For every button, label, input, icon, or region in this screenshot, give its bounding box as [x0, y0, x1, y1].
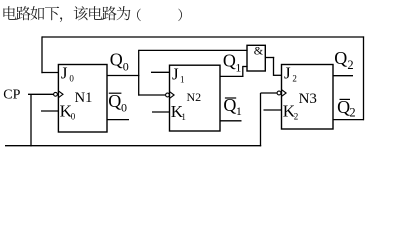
- wire Q1-bar stub: [220, 120, 242, 122]
- wire CP drop to bottom rail: [30, 94, 32, 146]
- wire K0 input stub: [41, 110, 58, 112]
- svg-text:1: 1: [235, 61, 241, 75]
- svg-text:2: 2: [294, 111, 299, 121]
- svg-text:2: 2: [347, 58, 353, 72]
- svg-text:N1: N1: [75, 90, 93, 106]
- flip-flop N3 box: [282, 65, 334, 130]
- svg-text:1: 1: [180, 74, 185, 84]
- label N3: [299, 91, 317, 107]
- svg-text:N3: N3: [299, 91, 317, 107]
- bubble N2 clock: [166, 93, 170, 97]
- svg-text:N2: N2: [187, 90, 202, 104]
- svg-text:Q: Q: [108, 91, 121, 111]
- wire Q0-bar stub: [107, 119, 129, 121]
- wire N3 clock input: [261, 92, 278, 94]
- wire CP input: [28, 93, 54, 95]
- label J2 of N3: [284, 64, 297, 84]
- wire bottom rail riser to N3 clock: [260, 93, 262, 146]
- flip-flop N2 box: [170, 65, 221, 131]
- label Q0: [110, 50, 129, 74]
- svg-text:Q: Q: [223, 51, 236, 71]
- wire bottom CP rail: [5, 145, 261, 147]
- clock wedge N2: [170, 92, 175, 99]
- wire AND output drop: [273, 57, 275, 76]
- bubble N1 clock: [54, 92, 58, 96]
- wire J0 input: [41, 72, 58, 74]
- svg-text:2: 2: [292, 74, 297, 84]
- title text: [3, 6, 182, 22]
- label Q1-bar: [223, 95, 242, 118]
- svg-text:J: J: [172, 64, 179, 83]
- svg-text:J: J: [61, 64, 68, 83]
- wire Q1 to AND gate: [243, 66, 248, 68]
- label N2: [187, 90, 202, 104]
- svg-text:0: 0: [123, 60, 129, 74]
- label J1 of N2: [172, 64, 185, 84]
- wire AND output: [265, 57, 274, 59]
- label N1: [75, 90, 93, 106]
- svg-text:&: &: [254, 44, 264, 58]
- label CP: [3, 88, 20, 103]
- wire top feedback rail: [42, 36, 364, 38]
- wire left feedback drop: [41, 36, 43, 73]
- label K0 of N1: [60, 101, 76, 121]
- wire Q0 output: [107, 75, 139, 77]
- wire Q0 riser: [138, 50, 140, 96]
- wire Q1 riser: [242, 66, 244, 77]
- label Q1: [223, 51, 242, 75]
- svg-text:Q: Q: [334, 48, 347, 68]
- wire J2 input: [274, 74, 282, 76]
- wire Q0 to N2 clock: [139, 94, 166, 96]
- label Q2: [334, 48, 353, 72]
- svg-text:0: 0: [69, 74, 74, 84]
- wire Q0 to AND gate: [139, 49, 248, 51]
- svg-text:0: 0: [71, 111, 76, 121]
- wire K2 input stub: [264, 109, 282, 111]
- svg-text:1: 1: [181, 112, 186, 122]
- flip-flop N1 box: [58, 65, 107, 133]
- wire Q1 output: [220, 75, 244, 77]
- wire J1 input stub: [151, 71, 170, 73]
- bubble N3 clock: [277, 91, 281, 95]
- label Q2-bar: [337, 97, 356, 120]
- label K1 of N2: [171, 102, 186, 122]
- wire K1 input stub: [152, 111, 170, 113]
- wire Q2-bar to feedback rail: [333, 119, 364, 121]
- AND gate & symbol: [254, 44, 264, 58]
- svg-text:J: J: [284, 64, 291, 83]
- svg-text:Q: Q: [110, 50, 123, 70]
- svg-text:CP: CP: [3, 88, 20, 103]
- wire Q2 output stub: [333, 75, 353, 77]
- wire right feedback rail: [363, 36, 365, 120]
- svg-text:Q: Q: [223, 95, 236, 115]
- svg-text:0: 0: [121, 100, 127, 114]
- clock wedge N1: [58, 91, 63, 98]
- clock wedge N3: [282, 90, 287, 97]
- label Q0-bar: [108, 91, 127, 115]
- label J0 of N1: [61, 64, 75, 84]
- svg-text:2: 2: [349, 106, 355, 120]
- svg-text:1: 1: [236, 104, 242, 118]
- label K2 of N3: [283, 101, 299, 121]
- AND gate U1 box: [247, 45, 265, 71]
- svg-text:Q: Q: [337, 97, 350, 117]
